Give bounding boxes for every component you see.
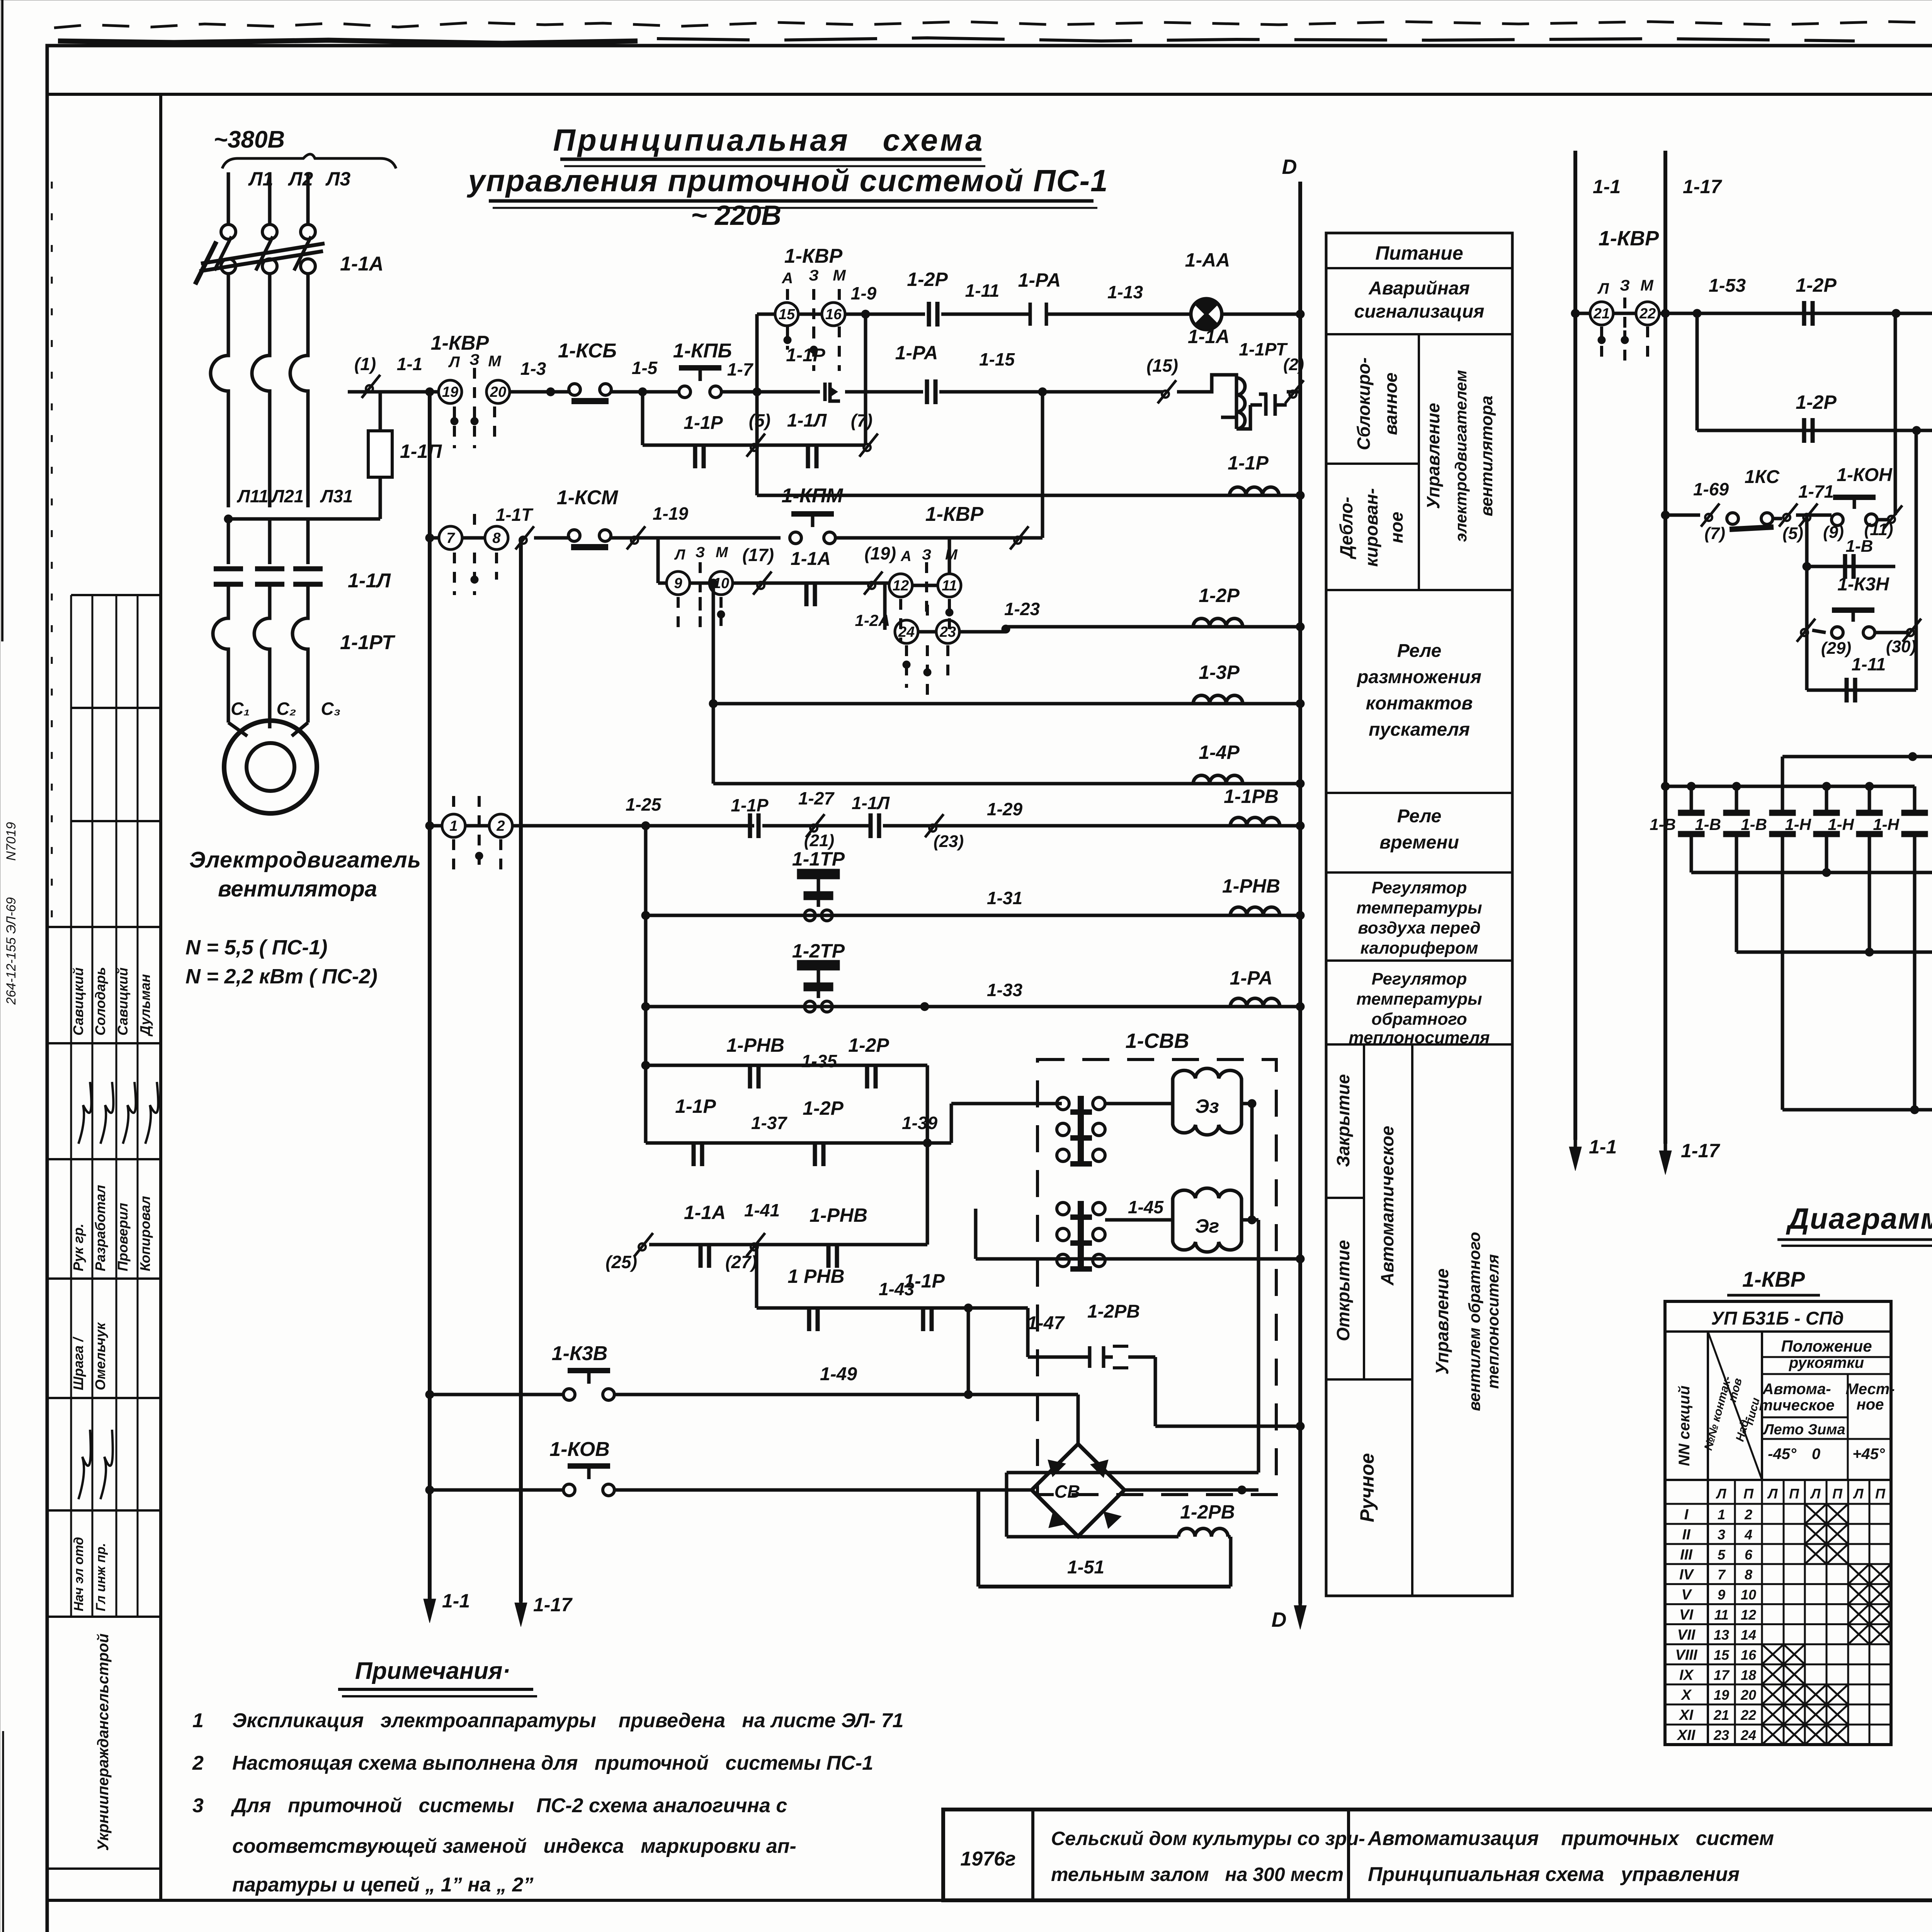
svg-text:Савицкий: Савицкий [70, 968, 86, 1036]
wire bus 1-1 [428, 392, 432, 1600]
svg-text:11: 11 [1714, 1607, 1728, 1623]
contact 1-В column [1781, 786, 1784, 815]
svg-text:24: 24 [1740, 1727, 1756, 1743]
wire 1-9 [846, 313, 925, 316]
contact main 1-1L [227, 519, 230, 564]
svg-text:Автома-: Автома- [1762, 1381, 1831, 1398]
svg-text:1-71: 1-71 [1798, 481, 1834, 502]
svg-text:Лето Зима: Лето Зима [1762, 1422, 1845, 1438]
svg-text:Эз: Эз [1195, 1095, 1219, 1117]
svg-text:Для приточной системы П: Для приточной системы ПС-2 схема аналоги… [231, 1794, 787, 1817]
svg-text:А: А [782, 270, 793, 287]
svg-text:8: 8 [1745, 1567, 1752, 1583]
svg-text:1-2ТР: 1-2ТР [792, 940, 845, 962]
svg-text:1-29: 1-29 [987, 799, 1022, 819]
wire motor leads [227, 688, 230, 723]
svg-text:Сблокиро-: Сблокиро- [1354, 357, 1374, 450]
svg-text:1-Н: 1-Н [1785, 815, 1811, 833]
svg-text:Проверил: Проверил [115, 1203, 131, 1271]
contact 1-Н column [1868, 786, 1871, 815]
svg-text:(21): (21) [804, 831, 834, 850]
svg-text:(1): (1) [354, 354, 376, 374]
svg-text:контактов: контактов [1366, 693, 1473, 714]
wire rung2 [425, 534, 434, 542]
svg-text:7: 7 [446, 530, 455, 546]
frame bottom strip line [47, 1899, 1932, 1902]
wire rung1 segment [510, 390, 571, 394]
svg-text:1-РНВ: 1-РНВ [1222, 875, 1280, 897]
svg-text:(19): (19) [864, 543, 896, 563]
svg-text:Регулятор: Регулятор [1372, 878, 1467, 897]
svg-text:1-17: 1-17 [533, 1594, 573, 1616]
wire L1 [227, 172, 230, 224]
svg-text:(25): (25) [605, 1252, 637, 1272]
svg-text:VII: VII [1677, 1627, 1696, 1643]
wire to bus y3691 [1155, 1425, 1300, 1428]
svg-text:температуры: температуры [1356, 990, 1482, 1009]
svg-text:П: П [1875, 1486, 1886, 1502]
svg-text:10: 10 [1741, 1587, 1756, 1603]
svg-text:Диаграмма работы кон: Диаграмма работы контактов [1786, 1202, 1932, 1235]
wire rung 1-53 [1665, 312, 1932, 315]
svg-text:Открытие: Открытие [1333, 1240, 1353, 1341]
svg-text:(7): (7) [1704, 524, 1725, 543]
svg-text:1КС: 1КС [1745, 467, 1780, 487]
wire rung 1-1R coil [757, 494, 1300, 497]
node label sblokirovannoe [1418, 334, 1420, 590]
svg-text:V: V [1681, 1587, 1692, 1603]
svg-text:14: 14 [1741, 1627, 1756, 1643]
svg-text:19: 19 [442, 384, 458, 400]
wire 1-47 drop [1154, 1357, 1157, 1426]
svg-text:М: М [833, 267, 846, 284]
svg-text:1-КПМ: 1-КПМ [782, 485, 844, 507]
svg-text:М: М [945, 547, 958, 563]
node stamp upper grid [71, 594, 160, 596]
svg-text:1-1РВ: 1-1РВ [1224, 786, 1279, 807]
wire rail upper [1782, 755, 1932, 759]
wire bridge link to coil rung [1007, 1471, 1259, 1475]
svg-text:8: 8 [492, 530, 501, 546]
svg-text:1-2Р: 1-2Р [1199, 585, 1240, 606]
wire 1-51 [978, 1585, 1231, 1588]
svg-text:1-19: 1-19 [653, 503, 688, 524]
svg-text:1-1Р: 1-1Р [731, 795, 768, 815]
svg-text:1-11: 1-11 [1852, 654, 1886, 674]
svg-text:соответствующей заменой инд: соответствующей заменой индекса маркиров… [232, 1835, 796, 1857]
svg-text:1-Н: 1-Н [1828, 815, 1854, 833]
svg-text:D: D [1282, 155, 1297, 179]
svg-text:1-1РТ: 1-1РТ [1239, 339, 1288, 359]
svg-text:1-КВР: 1-КВР [431, 332, 489, 354]
svg-text:5: 5 [1718, 1547, 1726, 1563]
svg-text:1-1: 1-1 [442, 1590, 470, 1612]
svg-text:М: М [488, 353, 502, 370]
svg-text:16: 16 [825, 306, 842, 323]
svg-text:П: П [1743, 1486, 1754, 1502]
svg-text:1-1РТ: 1-1РТ [340, 631, 396, 654]
wire selsyn bottom row to bus [1105, 1260, 1155, 1261]
wire 1-39 riser [950, 1104, 953, 1143]
svg-text:УП Б31Б - СПд: УП Б31Б - СПд [1711, 1308, 1844, 1329]
svg-text:З: З [809, 267, 819, 284]
wire phase drops [227, 274, 230, 340]
wire vertical x2698 [1041, 392, 1044, 538]
wire vertical x4959 [1915, 430, 1918, 630]
svg-text:1-7: 1-7 [727, 359, 754, 379]
svg-text:1-К3Н: 1-К3Н [1837, 574, 1889, 595]
svg-text:З: З [696, 544, 705, 561]
svg-text:X: X [1680, 1687, 1692, 1703]
contact 1-Н column [1913, 786, 1917, 815]
wire rung1 segment 1-5 [611, 390, 679, 394]
svg-text:Аварийная: Аварийная [1368, 278, 1470, 299]
svg-text:размножения: размножения [1356, 667, 1481, 687]
svg-text:Л: Л [1597, 280, 1609, 297]
contact 1-KVR 1 [425, 821, 434, 830]
svg-text:9: 9 [1718, 1587, 1725, 1603]
wire rung2 to 1-KVR slash [835, 536, 1043, 540]
node function table frame [1326, 233, 1512, 1596]
lamp 15 [757, 313, 774, 316]
lamp 21 [1571, 309, 1580, 318]
svg-text:Омельчук: Омельчук [92, 1322, 108, 1390]
svg-text:1-1Р: 1-1Р [1228, 452, 1269, 474]
coil 1-2RV [1007, 1535, 1179, 1539]
wire rung 1-41 [634, 1233, 653, 1256]
svg-text:(5): (5) [749, 410, 770, 430]
svg-text:Управление: Управление [1432, 1269, 1452, 1375]
wire vertical x4905 [1894, 313, 1897, 515]
svg-text:0: 0 [1812, 1446, 1820, 1463]
svg-text:(27): (27) [725, 1252, 757, 1272]
svg-text:Разработал: Разработал [92, 1185, 108, 1271]
svg-text:теплоносителя: теплоносителя [1484, 1254, 1502, 1389]
svg-text:(17): (17) [742, 545, 774, 565]
svg-text:А: А [900, 548, 911, 565]
svg-text:23: 23 [939, 624, 956, 640]
svg-text:2: 2 [192, 1752, 204, 1774]
contact 1-В column [1690, 786, 1693, 815]
svg-text:1-35: 1-35 [801, 1051, 837, 1071]
svg-text:1-9: 1-9 [851, 283, 877, 303]
svg-text:Мест-: Мест- [1845, 1381, 1895, 1398]
winding Ez [1105, 1102, 1173, 1105]
svg-text:1-1Т: 1-1Т [496, 505, 534, 525]
svg-text:1-3Р: 1-3Р [1199, 662, 1240, 683]
wire bypass 1-1R / 1-1A [641, 392, 645, 445]
svg-text:12: 12 [1741, 1607, 1756, 1623]
svg-text:1-47: 1-47 [1027, 1313, 1065, 1333]
svg-text:С₁: С₁ [231, 699, 250, 719]
svg-text:Л: Л [1716, 1486, 1727, 1502]
svg-text:Дебло-: Дебло- [1336, 497, 1356, 560]
svg-text:(2): (2) [1283, 355, 1304, 374]
node 1-KVR data rows [1665, 1523, 1891, 1525]
svg-text:16: 16 [1741, 1647, 1757, 1663]
svg-text:~ 220В: ~ 220В [691, 200, 781, 231]
svg-text:СВ: СВ [1054, 1481, 1080, 1502]
wire branch vertical x2240 [864, 314, 867, 445]
svg-text:N = 2,2 кВт ( ПС-2): N = 2,2 кВт ( ПС-2) [185, 965, 378, 988]
wire vertical 1-39 to 1-49 [967, 1308, 970, 1395]
svg-text:3: 3 [192, 1794, 204, 1817]
svg-text:1-1А: 1-1А [791, 549, 831, 569]
svg-text:22: 22 [1740, 1707, 1756, 1723]
thermal element loops [211, 340, 228, 507]
svg-text:З: З [922, 547, 931, 563]
lamp 9 [667, 571, 690, 595]
svg-text:ное: ное [1857, 1396, 1884, 1413]
wire rung 1-75 [1736, 951, 1932, 954]
svg-text:Копировал: Копировал [137, 1196, 153, 1271]
connector (23) [925, 814, 944, 837]
svg-text:1-1А: 1-1А [684, 1202, 726, 1223]
node bottom section dividers [1363, 1044, 1365, 1379]
svg-text:Савицкий: Савицкий [115, 968, 131, 1036]
svg-text:VIII: VIII [1675, 1647, 1697, 1663]
connector (17) [733, 582, 796, 585]
svg-text:З: З [469, 351, 480, 368]
contact 1-Н column [1825, 786, 1828, 815]
svg-text:Гл инж пр.: Гл инж пр. [94, 1543, 108, 1611]
contact 1-KVR 2 [465, 824, 489, 828]
svg-text:С₂: С₂ [277, 699, 296, 719]
node stamp signatures 2 [78, 1430, 91, 1499]
wire rung 1-63 [1696, 313, 1699, 430]
svg-text:вентилем обратного: вентилем обратного [1465, 1232, 1483, 1411]
svg-text:1-1Р: 1-1Р [684, 413, 723, 433]
svg-text:температуры: температуры [1356, 898, 1482, 917]
wire rung 1-37 [646, 1141, 951, 1145]
svg-text:21: 21 [1593, 306, 1610, 322]
svg-text:электродвигателем: электродвигателем [1452, 370, 1470, 542]
svg-text:24: 24 [898, 624, 915, 640]
node stamp column rows [47, 926, 160, 928]
svg-text:1-4Р: 1-4Р [1199, 742, 1240, 763]
wire branch 9/10 [656, 538, 660, 583]
wire rung1 segment 1-7 [721, 390, 811, 394]
svg-text:Положение: Положение [1781, 1337, 1872, 1355]
svg-text:Л: Л [448, 354, 460, 371]
lamp 24 [883, 583, 887, 630]
wire bridge top feed [1077, 1395, 1080, 1444]
wire bus 1-17 [519, 538, 523, 1602]
svg-text:1-11: 1-11 [965, 281, 1000, 301]
svg-text:1-КВР: 1-КВР [1742, 1267, 1805, 1291]
svg-text:1-2Р: 1-2Р [1796, 274, 1837, 296]
svg-text:3: 3 [1718, 1527, 1725, 1543]
svg-text:Л: Л [1767, 1486, 1778, 1502]
svg-text:Л: Л [674, 547, 685, 563]
svg-text:1-53: 1-53 [1709, 276, 1746, 296]
svg-text:1-К3В: 1-К3В [552, 1342, 608, 1365]
svg-text:1-1Л: 1-1Л [852, 793, 890, 813]
svg-text:(15): (15) [1146, 355, 1178, 376]
svg-text:М: М [716, 544, 728, 561]
wire L2 [268, 172, 272, 224]
lamp 10 [690, 582, 709, 585]
svg-text:2: 2 [1744, 1507, 1752, 1522]
wire scan top edge marks [54, 22, 1932, 28]
svg-text:1-69: 1-69 [1693, 479, 1729, 499]
svg-text:1-3: 1-3 [520, 359, 546, 379]
svg-text:1-1А: 1-1А [340, 253, 384, 275]
svg-text:Л3: Л3 [325, 168, 350, 190]
svg-text:1-2Р: 1-2Р [1796, 391, 1837, 413]
transformer selsyn windings [1057, 1097, 1069, 1110]
wire tap to fuse [228, 517, 380, 521]
wire bus 1-17 right [1663, 151, 1667, 1144]
wire rung 1-43 [755, 1245, 759, 1308]
svg-text:1-2РВ: 1-2РВ [1180, 1501, 1235, 1523]
svg-text:1-КПБ: 1-КПБ [673, 340, 732, 362]
wire vertical x1671 [644, 826, 648, 1143]
svg-text:N = 5,5 ( ПС-1): N = 5,5 ( ПС-1) [185, 936, 327, 959]
thermostat 1-2TR [641, 1002, 650, 1011]
svg-text:1-КВР: 1-КВР [1599, 227, 1659, 250]
svg-text:З: З [1620, 277, 1630, 294]
svg-text:1-РНВ: 1-РНВ [726, 1034, 784, 1056]
svg-text:1-2Р: 1-2Р [848, 1034, 889, 1056]
svg-text:23: 23 [1713, 1727, 1729, 1743]
svg-text:1-КОН: 1-КОН [1837, 465, 1893, 485]
wire rung 1-29 [512, 824, 754, 828]
svg-text:вентилятора: вентилятора [218, 876, 377, 901]
svg-text:1-КВР: 1-КВР [784, 245, 843, 267]
svg-text:вентилятора: вентилятора [1477, 396, 1496, 517]
svg-text:Примечания·: Примечания· [355, 1658, 510, 1684]
wire rung1 to (15) [939, 390, 1163, 394]
svg-text:1-51: 1-51 [1067, 1557, 1104, 1578]
svg-text:1-5: 1-5 [632, 358, 658, 378]
svg-text:III: III [1680, 1547, 1693, 1563]
svg-text:1-СВВ: 1-СВВ [1125, 1029, 1189, 1053]
svg-text:11: 11 [942, 578, 957, 594]
svg-text:1-41: 1-41 [744, 1200, 780, 1220]
breaker 1-1A [221, 224, 236, 239]
wire control tap (1) 1-1 [362, 375, 380, 398]
svg-text:1-РА: 1-РА [1018, 269, 1061, 291]
node stamp signatures 1 [78, 1082, 91, 1144]
connector rung2 [611, 536, 781, 540]
svg-text:1-В: 1-В [1695, 815, 1721, 833]
node 1-KVR table frame [1665, 1301, 1891, 1745]
svg-text:1-31: 1-31 [987, 888, 1022, 908]
svg-text:13: 13 [1714, 1627, 1729, 1643]
svg-text:обратного: обратного [1371, 1010, 1467, 1029]
svg-text:1-1Р: 1-1Р [904, 1270, 945, 1292]
rectifier bridge SV [1032, 1444, 1124, 1536]
svg-text:1-39: 1-39 [902, 1113, 937, 1133]
svg-text:времени: времени [1379, 832, 1459, 853]
svg-text:(9): (9) [1823, 523, 1844, 542]
svg-text:~380В: ~380В [214, 126, 285, 153]
wire bridge right out [1124, 1488, 1242, 1492]
svg-text:Л21: Л21 [271, 486, 304, 506]
node arrow 1-17 [515, 1592, 527, 1627]
svg-text:2: 2 [496, 818, 505, 834]
svg-text:IX: IX [1679, 1667, 1694, 1683]
thermal relay 1-1RT heaters [213, 611, 228, 688]
node header diag cell [1708, 1332, 1762, 1480]
svg-text:1-23: 1-23 [1004, 599, 1040, 619]
coil 1-4R [713, 782, 1300, 786]
winding Eg [1105, 1218, 1173, 1222]
svg-text:Эг: Эг [1195, 1215, 1219, 1237]
svg-text:Л: Л [1810, 1486, 1821, 1502]
svg-text:(23): (23) [934, 832, 964, 851]
lamp 22 [1613, 312, 1636, 315]
svg-text:Принципиальная схема управл: Принципиальная схема управления [1368, 1863, 1740, 1886]
wire 1-23 [959, 630, 1006, 634]
svg-text:1-25: 1-25 [626, 794, 662, 815]
svg-text:264-12-155 ЭЛ-69 N701: 264-12-155 ЭЛ-69 N7019 [4, 822, 19, 1005]
wire bus D [1298, 182, 1302, 1604]
svg-text:17: 17 [1714, 1667, 1730, 1683]
svg-text:1-1Л: 1-1Л [787, 410, 827, 431]
svg-text:С₃: С₃ [321, 699, 340, 719]
svg-text:1-КВР: 1-КВР [925, 503, 984, 526]
svg-text:Ручное: Ручное [1356, 1453, 1378, 1522]
svg-text:21: 21 [1713, 1707, 1729, 1723]
svg-text:(30): (30) [1886, 637, 1916, 656]
svg-text:1-1Р: 1-1Р [675, 1095, 716, 1117]
wire dashed box 1-SVV [1037, 1060, 1276, 1495]
svg-text:1-В: 1-В [1741, 815, 1767, 833]
svg-text:калорифером: калорифером [1361, 939, 1478, 957]
svg-text:1-2Р: 1-2Р [907, 269, 948, 290]
svg-text:паратуры и цепей „ 1” на „ 2”: паратуры и цепей „ 1” на „ 2” [232, 1874, 533, 1896]
svg-text:1-АА: 1-АА [1185, 249, 1230, 271]
svg-text:Регулятор: Регулятор [1372, 969, 1467, 988]
svg-text:ванное: ванное [1381, 372, 1401, 435]
svg-text:1-17: 1-17 [1683, 176, 1722, 197]
svg-text:1: 1 [1718, 1507, 1725, 1522]
svg-text:NN секций: NN секций [1676, 1386, 1693, 1466]
svg-text:20: 20 [490, 384, 506, 400]
coil 1-3R [712, 583, 715, 784]
wire Ez/Eg output vertical [1250, 1104, 1254, 1220]
node arrow D bottom [1294, 1599, 1306, 1629]
svg-text:сигнализация: сигнализация [1354, 301, 1485, 322]
wire rail pair connectors [1665, 785, 1915, 788]
frame margin dash-dot line [51, 182, 53, 927]
svg-text:XII: XII [1677, 1727, 1696, 1743]
svg-text:1 РНВ: 1 РНВ [787, 1265, 844, 1287]
svg-text:1-КОВ: 1-КОВ [549, 1438, 610, 1461]
svg-text:воздуха перед: воздуха перед [1358, 918, 1480, 937]
svg-text:Шрага /: Шрага / [70, 1336, 86, 1390]
svg-text:Принципиальная схема: Принципиальная схема [553, 123, 985, 157]
svg-text:I: I [1684, 1507, 1689, 1523]
svg-text:теплоносителя: теплоносителя [1349, 1028, 1490, 1047]
svg-text:Нач эл отд: Нач эл отд [71, 1537, 86, 1611]
svg-text:+45°: +45° [1852, 1446, 1885, 1463]
svg-text:4: 4 [1744, 1527, 1752, 1543]
wire rung 1KC [1661, 511, 1670, 519]
svg-text:Управление: Управление [1423, 403, 1443, 509]
coil 1-2R [1004, 627, 1008, 632]
svg-text:Рук гр.: Рук гр. [70, 1224, 86, 1272]
svg-text:1-КСБ: 1-КСБ [558, 340, 617, 362]
wire to bridge [614, 1488, 1032, 1492]
node title block frame [943, 1810, 1932, 1900]
svg-text:1-В: 1-В [1650, 815, 1676, 833]
wire L3 [306, 172, 310, 224]
fuse 1-1P [379, 425, 382, 519]
svg-text:15: 15 [779, 306, 795, 323]
